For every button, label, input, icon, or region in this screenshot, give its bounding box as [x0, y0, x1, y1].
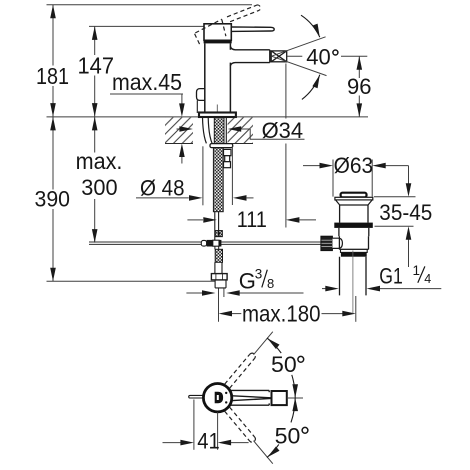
- svg-text:35-45: 35-45: [379, 200, 432, 225]
- leader max.45: [110, 94, 183, 104]
- svg-text:96: 96: [347, 74, 372, 99]
- hose end tube: [215, 262, 222, 273]
- faucet body column: [205, 43, 231, 112]
- dashed lever axis extension (up): [254, 332, 273, 355]
- lever dashed +50 deg (up): [225, 353, 256, 388]
- svg-text:390: 390: [35, 187, 71, 212]
- spray cone lines (40 deg): [272, 37, 327, 76]
- knob connector: [332, 238, 342, 248]
- waste flange: [335, 197, 373, 200]
- svg-text:G1: G1: [379, 263, 403, 288]
- lever shaft (bottom view): [229, 390, 273, 405]
- dim Ø63: [303, 160, 409, 197]
- waste seal ring: [341, 252, 367, 256]
- rod coupler thumbscrew: [201, 240, 206, 246]
- dim max.180: [219, 289, 356, 322]
- svg-text:Ø63: Ø63: [334, 153, 374, 178]
- screw dots: [225, 392, 227, 394]
- swing arc upper: [267, 338, 281, 353]
- hose nut G3/8: [211, 274, 227, 280]
- deck outline: [165, 143, 253, 145]
- svg-text:max.180: max.180: [242, 300, 321, 326]
- dim line 147: [94, 26, 96, 55]
- mounting washer: [210, 144, 233, 148]
- arrow 147 bottom: [92, 103, 98, 117]
- dim 41: [163, 400, 249, 450]
- waste body below gasket: [339, 228, 369, 236]
- extension line head top: [89, 25, 205, 27]
- svg-text:41: 41: [197, 428, 220, 453]
- waste tail tube G1 1/4: [340, 257, 367, 296]
- pop-up rod hook behind body: [197, 89, 205, 101]
- svg-text:max.45: max.45: [112, 69, 182, 95]
- dim 111: [187, 64, 316, 228]
- svg-text:4: 4: [424, 272, 431, 286]
- spray angle arc upper: [301, 15, 320, 37]
- arrow max.45 bottom: [179, 144, 185, 158]
- svg-text:max.: max.: [76, 148, 123, 174]
- svg-text:Ø 48: Ø 48: [140, 175, 185, 200]
- arrow max.300 top: [92, 117, 98, 130]
- waste centerline: [352, 251, 354, 314]
- waste plug cap: [341, 193, 367, 198]
- faucet head bottom band: [204, 40, 232, 43]
- dim Ø34 leader: [177, 129, 305, 139]
- svg-text:181: 181: [36, 63, 69, 89]
- dashed lever axis extension (down): [254, 441, 273, 464]
- hose tube below braid: [215, 212, 219, 240]
- arrow max.45 top: [179, 103, 185, 117]
- hose braid lower: [215, 249, 222, 262]
- svg-text:111: 111: [237, 207, 267, 232]
- threaded shank in deck hole: [214, 117, 224, 143]
- svg-text:G: G: [239, 269, 256, 294]
- svg-text:50: 50: [275, 423, 301, 448]
- pop-up knob (knurled): [321, 236, 333, 250]
- extension line hose end (390 bottom): [47, 280, 216, 282]
- arrow 390 top: [50, 117, 56, 130]
- svg-text:Ø34: Ø34: [262, 118, 304, 143]
- faucet centerline: [216, 105, 218, 117]
- lever handle dashed (open position): [195, 5, 261, 46]
- dim Ø48: [136, 146, 254, 205]
- aerator: [271, 51, 287, 62]
- arrow max.300 bottom: [92, 229, 98, 243]
- lever centerline extension: [287, 397, 303, 399]
- spout: [230, 47, 269, 66]
- svg-text:1: 1: [413, 263, 421, 278]
- svg-text:8: 8: [267, 276, 274, 291]
- G3/8 thread tube: [215, 280, 226, 288]
- waste upper body: [340, 205, 368, 223]
- lever dashed -50 deg (down): [225, 407, 256, 442]
- svg-text:50: 50: [271, 352, 297, 377]
- dim G1 1/4 arrows: [322, 288, 441, 290]
- arrow 390 bottom: [50, 268, 56, 282]
- spray angle arc lower: [302, 75, 320, 100]
- pop-up rod in hole: [225, 117, 227, 143]
- pop-up transfer bar: [89, 242, 321, 244]
- supply hose curves in hole: [203, 117, 213, 143]
- deck hatch right block: [228, 117, 253, 143]
- dim line 390: [52, 117, 54, 190]
- waste mid body: [339, 236, 368, 249]
- svg-text:300: 300: [81, 175, 117, 200]
- swing arc lower: [267, 444, 279, 457]
- svg-text:40: 40: [306, 45, 331, 70]
- arrow 181 bottom: [50, 103, 56, 117]
- waste flange taper: [336, 200, 373, 205]
- svg-text:3: 3: [255, 267, 263, 282]
- lever handle (closed position): [231, 27, 274, 32]
- dim line 181: [52, 5, 54, 66]
- faucet body circle: [203, 384, 231, 412]
- flexible hose braid upper: [213, 148, 223, 212]
- mounting nut blocks: [224, 149, 232, 167]
- aerator mark (D): [215, 392, 223, 403]
- deck hatch left block: [165, 117, 193, 143]
- faucet head: [204, 24, 231, 41]
- pop-up rod stub (bottom view): [189, 395, 204, 398]
- countertop deck cross-section: [165, 117, 253, 143]
- extension line deck top: [47, 116, 369, 118]
- dim 96: [341, 56, 367, 117]
- extension line top (lever raised height): [47, 4, 253, 6]
- lever grip (bottom view): [272, 391, 287, 405]
- waste lock ring: [341, 249, 368, 252]
- faucet base plate: [199, 113, 236, 118]
- hose crimp block: [215, 231, 222, 237]
- svg-text:147: 147: [78, 53, 115, 79]
- dim G3/8 arrows: [186, 289, 303, 298]
- dim line max.300: [94, 117, 96, 153]
- arrow 181 top: [50, 5, 56, 18]
- waste rubber gasket: [334, 223, 373, 228]
- arrow 147 top: [92, 26, 98, 40]
- dim 35-45: [374, 166, 416, 267]
